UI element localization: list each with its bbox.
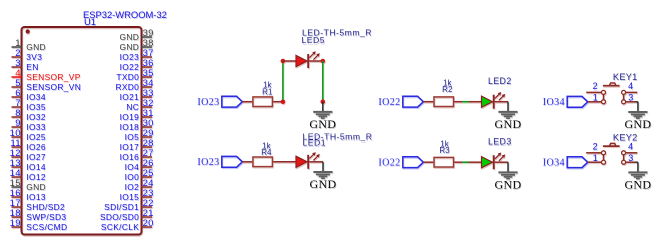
svg-text:1: 1: [593, 93, 598, 103]
pin 9 IO33 (left): [12, 118, 46, 132]
svg-text:IO33: IO33: [26, 122, 46, 132]
ground: [495, 162, 522, 191]
svg-text:IO4: IO4: [125, 162, 140, 172]
svg-text:4: 4: [628, 142, 633, 152]
pin 32 NC (right): [126, 98, 153, 112]
svg-text:LED2: LED2: [488, 76, 512, 86]
resistor R2 1k: [434, 79, 454, 107]
pin 24 IO2 (right): [125, 178, 154, 192]
svg-text:SDO/SD0: SDO/SD0: [100, 212, 139, 222]
svg-text:GND: GND: [309, 117, 336, 131]
wire LED5 cathode stub: [309, 60, 323, 62]
svg-text:LED1: LED1: [303, 138, 327, 148]
svg-text:KEY1: KEY1: [613, 72, 638, 82]
svg-text:SENSOR_VN: SENSOR_VN: [26, 82, 81, 92]
pin 29 IO5 (right): [125, 128, 154, 142]
pin 39 GND (right): [120, 28, 154, 42]
IC U1 ESP32-WROOM-32 body: [22, 27, 142, 235]
svg-text:3V3: 3V3: [26, 52, 42, 62]
svg-text:IO16: IO16: [120, 152, 140, 162]
svg-text:EN: EN: [26, 62, 38, 72]
svg-text:TXD0: TXD0: [116, 72, 139, 82]
pin 15 GND (left): [10, 178, 46, 192]
junction A2: [281, 59, 286, 64]
svg-text:2: 2: [593, 81, 598, 91]
wire IO23 to R4: [242, 161, 252, 163]
pin 31 IO19 (right): [120, 108, 154, 122]
svg-text:IO0: IO0: [125, 172, 140, 182]
ground: [624, 162, 651, 191]
ground: [310, 162, 337, 191]
pin 33 IO21 (right): [120, 88, 154, 102]
pin 20 SCK/CLK (right): [101, 218, 154, 232]
wire IO34 to KEY2 pin1: [588, 161, 602, 163]
junction A4: [321, 99, 326, 104]
pin 16 IO13 (left): [10, 188, 46, 202]
wire KEY1 pin3 to GND: [635, 101, 638, 103]
wire R1 to junction: [273, 101, 283, 103]
pin 36 IO22 (right): [120, 58, 154, 72]
pin 23 IO15 (right): [120, 188, 154, 202]
ground: [495, 102, 522, 131]
wire LED2 anode stub: [469, 101, 482, 103]
svg-text:SCK/CLK: SCK/CLK: [101, 222, 139, 232]
resistor R3 1k: [434, 140, 454, 167]
svg-text:R2: R2: [442, 85, 453, 94]
svg-text:IO18: IO18: [120, 122, 140, 132]
ground: [309, 102, 336, 131]
pin 1 GND (left): [12, 38, 46, 52]
svg-text:IO26: IO26: [26, 142, 46, 152]
pin 2 3V3 (left): [12, 48, 43, 62]
svg-text:SCS/CMD: SCS/CMD: [26, 222, 67, 232]
pin 3 EN (left): [12, 58, 39, 72]
wire LED3 cathode to GND corner: [495, 161, 508, 163]
pin 18 SWP/SD3 (left): [10, 208, 67, 222]
pin 37 IO23 (right): [120, 48, 154, 62]
junction A1: [281, 99, 286, 104]
svg-text:20: 20: [143, 218, 154, 229]
svg-text:IO22: IO22: [378, 97, 400, 108]
svg-text:GND: GND: [310, 177, 337, 191]
pin 7 IO35 (left): [12, 98, 46, 112]
node IO34-K2 global label: [543, 157, 588, 169]
pin 26 IO4 (right): [125, 158, 154, 172]
pin 5 SENSOR_VN (left): [12, 78, 82, 92]
svg-text:19: 19: [10, 218, 21, 229]
svg-text:SENSOR_VP: SENSOR_VP: [26, 72, 80, 82]
pin 25 IO0 (right): [125, 168, 154, 182]
svg-text:R1: R1: [262, 88, 273, 97]
svg-text:IO21: IO21: [120, 92, 140, 102]
svg-text:GND: GND: [120, 42, 140, 52]
svg-text:IO23: IO23: [197, 97, 219, 108]
wire IO22 to R2: [423, 101, 433, 103]
junction A3: [321, 59, 326, 64]
pin 34 RXD0 (right): [115, 78, 153, 92]
svg-text:IO34: IO34: [543, 97, 565, 108]
svg-text:GND: GND: [495, 177, 522, 191]
pin 14 IO12 (left): [10, 168, 46, 182]
node IO34-K1 global label: [543, 96, 588, 108]
svg-text:IO34: IO34: [26, 92, 46, 102]
svg-text:3: 3: [628, 153, 633, 163]
svg-text:U1: U1: [84, 16, 96, 27]
node IO22-C global label: [378, 96, 423, 108]
wire LED3 anode stub: [469, 161, 482, 163]
svg-text:2: 2: [593, 142, 598, 152]
svg-text:GND: GND: [120, 32, 140, 42]
wire green segment: [462, 161, 468, 163]
svg-text:SDI/SD1: SDI/SD1: [104, 202, 139, 212]
svg-text:3: 3: [628, 93, 633, 103]
pin 19 SCS/CMD (left): [10, 218, 68, 232]
svg-text:IO27: IO27: [26, 152, 46, 162]
svg-text:GND: GND: [26, 42, 46, 52]
svg-text:IO15: IO15: [120, 192, 140, 202]
pin 11 IO26 (left): [10, 138, 46, 152]
resistor R1 1k: [253, 80, 273, 106]
wire R4 to LED1: [273, 161, 296, 163]
pin 38 GND (right): [120, 38, 154, 52]
svg-text:IO32: IO32: [26, 112, 46, 122]
switch KEY2 push button: [586, 132, 637, 164]
wire LED1 cathode to GND corner: [309, 161, 323, 163]
svg-text:IO23: IO23: [120, 52, 140, 62]
switch KEY1 push button: [586, 72, 637, 104]
wire IO22 to R3: [423, 161, 433, 163]
svg-text:IO35: IO35: [26, 102, 46, 112]
wire LED2 cathode to GND corner: [495, 101, 508, 103]
svg-text:LED5: LED5: [302, 35, 326, 45]
wire up to LED5 anode: [282, 61, 284, 100]
svg-text:IO34: IO34: [543, 157, 565, 168]
wire KEY2 pin3 to GND: [635, 161, 638, 163]
pin 27 IO16 (right): [120, 148, 154, 162]
svg-text:4: 4: [628, 81, 633, 91]
wire down to GND: [322, 61, 324, 101]
node IO23-B global label: [197, 156, 242, 168]
svg-text:1: 1: [593, 153, 598, 163]
svg-text:IO22: IO22: [378, 157, 400, 168]
svg-text:IO14: IO14: [26, 162, 46, 172]
svg-text:GND: GND: [624, 117, 651, 131]
svg-text:IO17: IO17: [120, 142, 140, 152]
svg-text:GND: GND: [26, 182, 46, 192]
pin 17 SHD/SD2 (left): [10, 198, 65, 212]
svg-text:KEY2: KEY2: [613, 132, 638, 142]
wire IO23 to R1: [242, 101, 252, 103]
LED LED5: [296, 51, 320, 68]
pin 6 IO34 (left): [12, 88, 46, 102]
pin 12 IO27 (left): [10, 148, 46, 162]
ground: [624, 102, 651, 131]
svg-text:IO23: IO23: [197, 157, 219, 168]
wire R3 stub: [454, 161, 462, 163]
pin 8 IO32 (left): [12, 108, 46, 122]
svg-text:NC: NC: [126, 102, 139, 112]
pin 35 TXD0 (right): [116, 68, 153, 82]
svg-text:GND: GND: [624, 177, 651, 191]
pin 10 IO25 (left): [10, 128, 46, 142]
pin 13 IO14 (left): [10, 158, 46, 172]
wire R2 stub: [454, 101, 462, 103]
svg-text:R3: R3: [439, 146, 450, 155]
wire LED5 anode stub: [283, 60, 296, 62]
pin 21 SDO/SD0 (right): [100, 208, 154, 222]
LED LED1: [296, 152, 320, 169]
svg-text:IO22: IO22: [120, 62, 140, 72]
svg-text:SWP/SD3: SWP/SD3: [26, 212, 66, 222]
svg-text:IO25: IO25: [26, 132, 46, 142]
wire IO34 to KEY1 pin1: [588, 101, 602, 103]
svg-text:R4: R4: [261, 148, 272, 157]
wire green segment: [462, 101, 468, 103]
svg-text:IO19: IO19: [120, 112, 140, 122]
LED LED2: [482, 92, 506, 109]
svg-text:GND: GND: [495, 117, 522, 131]
pin 4 SENSOR_VP (left): [12, 68, 81, 82]
svg-text:LED3: LED3: [488, 137, 512, 147]
svg-text:RXD0: RXD0: [115, 82, 139, 92]
resistor R4 1k: [253, 141, 273, 166]
pin 28 IO17 (right): [120, 138, 154, 152]
svg-text:IO5: IO5: [125, 132, 140, 142]
svg-text:IO13: IO13: [26, 192, 46, 202]
LED LED3: [482, 153, 506, 170]
svg-text:IO12: IO12: [26, 172, 46, 182]
node IO22-D global label: [378, 157, 423, 169]
svg-text:IO2: IO2: [125, 182, 140, 192]
pin 22 SDI/SD1 (right): [104, 198, 154, 212]
pin 30 IO18 (right): [120, 118, 154, 132]
node IO23-A global label: [197, 96, 242, 108]
svg-text:SHD/SD2: SHD/SD2: [26, 202, 65, 212]
U1 pin-1 marker dot: [26, 29, 30, 33]
